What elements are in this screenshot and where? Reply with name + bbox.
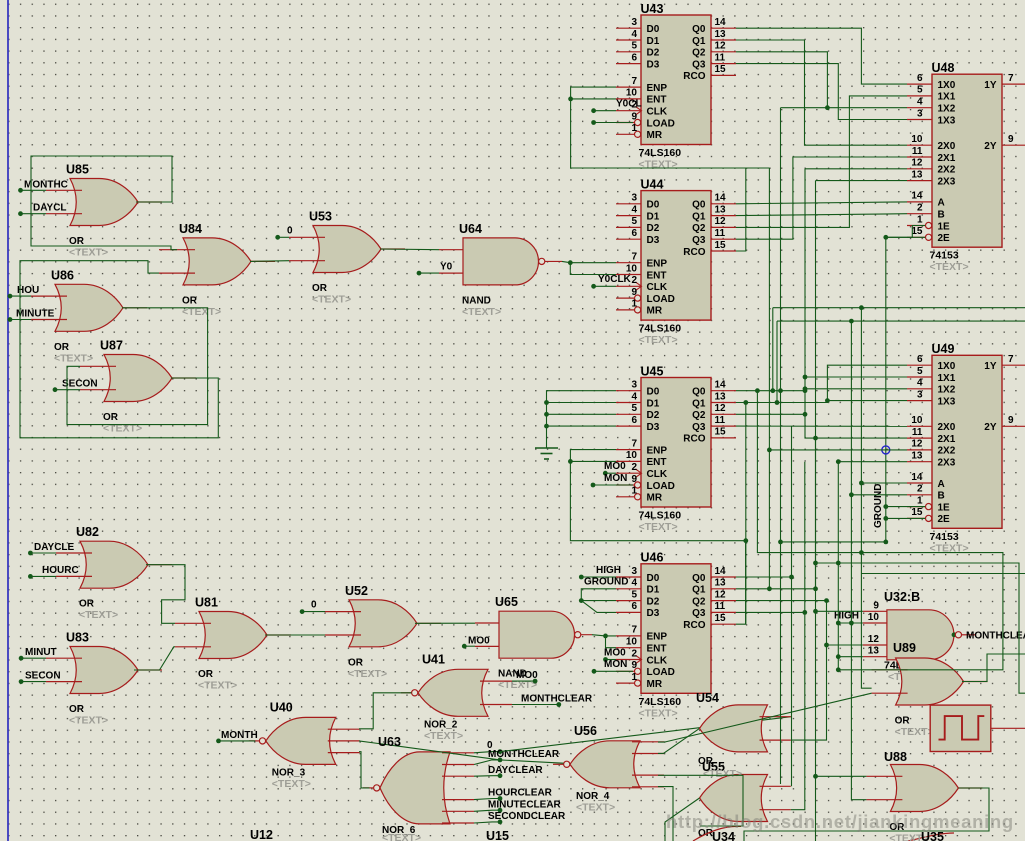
- svg-text:7: 7: [631, 252, 637, 263]
- net label SECON (lower): [19, 670, 61, 684]
- net label 0 to U52 input A: [300, 600, 325, 614]
- svg-text:<TEXT>: <TEXT>: [198, 680, 237, 692]
- svg-text:U56: U56: [574, 724, 597, 738]
- wire U54 output diagonal to U56 input 2: [658, 728, 700, 753]
- svg-text:13: 13: [715, 391, 727, 402]
- svg-text:2E: 2E: [938, 233, 951, 244]
- svg-text:Q3: Q3: [692, 59, 706, 70]
- svg-text:2: 2: [917, 484, 923, 495]
- IC U48 74153 multiplexer: [907, 61, 1025, 273]
- svg-text:MO0: MO0: [604, 461, 626, 472]
- svg-text:10: 10: [868, 612, 880, 623]
- svg-text:U85: U85: [66, 163, 89, 177]
- svg-text:<TEXT>: <TEXT>: [639, 159, 678, 171]
- net label Y0CLK at U44 CLK: [591, 274, 631, 289]
- svg-text:11: 11: [715, 228, 726, 239]
- wire U87 output loop to U84 input B: [20, 261, 218, 438]
- wire U45 D0-D3 tied to ground: [544, 391, 616, 448]
- svg-text:1: 1: [631, 486, 637, 497]
- svg-text:14: 14: [911, 472, 923, 483]
- svg-text:5: 5: [631, 403, 637, 414]
- net label MONTHC: [18, 180, 68, 193]
- svg-text:MINUTE: MINUTE: [16, 309, 55, 320]
- svg-text:4: 4: [917, 378, 923, 389]
- svg-text:OR: OR: [182, 295, 198, 306]
- svg-text:15: 15: [715, 240, 727, 251]
- svg-text:ENP: ENP: [647, 83, 668, 94]
- wire U44 Q1 straight to U48 B: [736, 214, 907, 216]
- svg-text:Q2: Q2: [692, 223, 706, 234]
- wire U81 output to U52 input B: [265, 634, 325, 636]
- svg-text:Q0: Q0: [692, 387, 706, 398]
- svg-text:2X1: 2X1: [938, 434, 956, 445]
- svg-text:ENP: ENP: [647, 259, 668, 270]
- svg-text:OR: OR: [103, 412, 119, 423]
- svg-text:U86: U86: [51, 268, 74, 282]
- wire U43 ENP/ENT tie to U44 RCO (carry chain): [568, 87, 746, 251]
- svg-text:12: 12: [715, 403, 727, 414]
- svg-text:6: 6: [631, 601, 637, 612]
- wire U43 Q0 to U48 1X0 via track x=861: [736, 28, 907, 84]
- svg-text:10: 10: [911, 415, 923, 426]
- svg-text:3: 3: [631, 17, 637, 28]
- svg-text:Y0: Y0: [440, 262, 453, 273]
- IC U49 74153 multiplexer: [907, 342, 1025, 554]
- svg-text:U84: U84: [179, 222, 202, 236]
- svg-text:U89: U89: [893, 641, 916, 655]
- svg-text:1X3: 1X3: [938, 115, 956, 126]
- wire U84 output to U53 input B: [250, 260, 289, 263]
- svg-text:14: 14: [715, 566, 727, 577]
- svg-text:Q2: Q2: [692, 410, 706, 421]
- svg-text:3: 3: [631, 380, 637, 391]
- svg-text:U52: U52: [345, 584, 368, 598]
- svg-text:<TEXT>: <TEXT>: [69, 715, 108, 727]
- svg-text:2X2: 2X2: [938, 446, 956, 457]
- svg-text:1X0: 1X0: [938, 361, 956, 372]
- svg-text:D1: D1: [647, 36, 660, 47]
- svg-text:Y0CLK: Y0CLK: [598, 274, 632, 285]
- wire U40 input 3 to NOR_6 output: [359, 752, 370, 788]
- OR gate U83: [46, 631, 162, 727]
- svg-text:MINUTECLEAR: MINUTECLEAR: [488, 799, 562, 810]
- svg-text:D3: D3: [647, 59, 660, 70]
- svg-text:Q1: Q1: [692, 36, 706, 47]
- svg-text:OR: OR: [348, 657, 364, 668]
- svg-text:<TEXT>: <TEXT>: [382, 832, 421, 841]
- NOR_2 gate U41 (mirrored, output bubble at left): [401, 652, 512, 742]
- svg-text:NOR_3: NOR_3: [272, 767, 306, 778]
- svg-text:14: 14: [715, 380, 727, 391]
- svg-text:ENT: ENT: [647, 270, 667, 281]
- svg-text:2E: 2E: [938, 514, 951, 525]
- wire U56 input 4 run down: [658, 787, 673, 841]
- wire U89 output: [962, 654, 1025, 682]
- svg-text:MONTH: MONTH: [221, 730, 258, 741]
- svg-text:D3: D3: [647, 422, 660, 433]
- svg-text:1E: 1E: [938, 502, 951, 513]
- svg-text:NOR_4: NOR_4: [576, 791, 610, 802]
- wire U46 Q0 to U49 2X0 track x=791 and down to U55 input 1: [736, 426, 794, 786]
- svg-text:0: 0: [287, 226, 293, 237]
- svg-text:9: 9: [1008, 134, 1014, 145]
- svg-text:1: 1: [631, 299, 637, 310]
- svg-text:D2: D2: [647, 596, 660, 607]
- NAND gate U65: [475, 595, 581, 691]
- svg-text:MR: MR: [647, 130, 663, 141]
- svg-text:4: 4: [917, 97, 923, 108]
- svg-text:74LS160: 74LS160: [639, 696, 682, 708]
- svg-text:http://blog.csdn.net/jiankingm: http://blog.csdn.net/jiankingmeaning: [666, 811, 1014, 832]
- svg-text:MON: MON: [604, 659, 627, 670]
- svg-text:U45: U45: [641, 364, 664, 378]
- wire U64 output to U44 ENP and ENT: [545, 260, 616, 274]
- svg-text:D2: D2: [647, 223, 660, 234]
- svg-text:3: 3: [631, 193, 637, 204]
- chain horizontal from U43 extended with branch tracks x=769 x=780: [746, 168, 770, 589]
- origin marker (blue circle): [882, 446, 890, 454]
- net label MON at U45 LOAD: [591, 473, 633, 488]
- svg-text:U15: U15: [486, 829, 509, 841]
- wire U45 Q3 straight through to U49 2X0: [736, 425, 907, 427]
- labels U54 U55 U34: [696, 691, 742, 841]
- svg-text:0: 0: [311, 600, 317, 611]
- svg-text:U32:B: U32:B: [884, 590, 920, 604]
- OR gate U55 (mirrored, output at left tip): [700, 775, 791, 822]
- svg-text:DAYCL: DAYCL: [33, 203, 67, 214]
- wire U43 Q2 to U48 1X2 via track x=827: [736, 52, 907, 110]
- svg-text:3: 3: [631, 566, 637, 577]
- svg-text:2X3: 2X3: [938, 176, 956, 187]
- svg-text:D0: D0: [647, 573, 660, 584]
- svg-text:2: 2: [631, 648, 637, 659]
- svg-text:U46: U46: [641, 551, 664, 565]
- svg-text:HIGH: HIGH: [596, 565, 621, 576]
- IC U44 74LS160 counter: [616, 177, 736, 346]
- svg-text:MO0: MO0: [604, 647, 626, 658]
- track x=757 from U45 Q0 down to right-edge run at y=552: [757, 391, 1003, 670]
- net label MO0 to U65 input B: [462, 636, 490, 649]
- svg-text:D0: D0: [647, 200, 660, 211]
- svg-text:2X0: 2X0: [938, 141, 956, 152]
- svg-text:SECONDCLEAR: SECONDCLEAR: [488, 811, 566, 822]
- svg-text:1X3: 1X3: [938, 396, 956, 407]
- svg-text:1X0: 1X0: [938, 80, 956, 91]
- svg-text:<TEXT>: <TEXT>: [639, 707, 678, 719]
- net label MON at U46 LOAD: [592, 659, 633, 674]
- svg-text:B: B: [938, 210, 945, 221]
- svg-text:Y0CL: Y0CL: [616, 99, 642, 110]
- svg-text:D0: D0: [647, 24, 660, 35]
- svg-text:9: 9: [631, 287, 637, 298]
- svg-text:D2: D2: [647, 410, 660, 421]
- svg-text:NOR_2: NOR_2: [424, 719, 458, 730]
- svg-text:U53: U53: [309, 210, 332, 224]
- svg-text:Q1: Q1: [692, 585, 706, 596]
- svg-text:7: 7: [631, 438, 637, 449]
- svg-text:MR: MR: [647, 306, 663, 317]
- net label MINUT: [19, 647, 57, 661]
- svg-text:2: 2: [631, 275, 637, 286]
- svg-text:13: 13: [715, 578, 727, 589]
- svg-text:LOAD: LOAD: [647, 294, 675, 305]
- net label MO0 at U45 CLK: [603, 461, 626, 476]
- svg-text:1: 1: [631, 123, 637, 134]
- junction dot and bubble at U32:B output with MONTHCLEAR label: [952, 631, 1025, 642]
- svg-text:<TEXT>: <TEXT>: [895, 726, 934, 738]
- OR gate U54 (mirrored, output at left tip): [700, 705, 791, 752]
- IC U43 74LS160 counter: [616, 2, 736, 171]
- svg-text:4: 4: [631, 204, 637, 215]
- svg-text:15: 15: [911, 226, 923, 237]
- svg-text:1: 1: [631, 672, 637, 683]
- wire U49 A select from track x=861: [773, 305, 1025, 688]
- svg-text:CLK: CLK: [647, 282, 668, 293]
- svg-text:74LS160: 74LS160: [639, 147, 682, 159]
- svg-text:HOURCLEAR: HOURCLEAR: [488, 788, 553, 799]
- digital clock source symbol: [930, 705, 1025, 751]
- net label MONTHCLEAR at U41 input B: [512, 693, 593, 707]
- net label MO0 at U41 input A: [512, 670, 538, 684]
- wire U65 output to U46 ENP and ENT: [0, 0, 1, 1]
- svg-text:U41: U41: [422, 652, 445, 666]
- svg-text:13: 13: [868, 646, 880, 657]
- svg-text:11: 11: [715, 415, 726, 426]
- svg-text:ENT: ENT: [647, 457, 667, 468]
- svg-text:MR: MR: [647, 679, 663, 690]
- svg-text:<TEXT>: <TEXT>: [312, 294, 351, 306]
- svg-text:14: 14: [715, 17, 727, 28]
- net label DAYCLE: [28, 542, 75, 555]
- svg-text:Q1: Q1: [692, 398, 706, 409]
- svg-text:13: 13: [911, 169, 923, 180]
- svg-text:Q1: Q1: [692, 211, 706, 222]
- svg-text:DAYCLE: DAYCLE: [34, 542, 75, 553]
- svg-text:15: 15: [715, 64, 727, 75]
- wire U45 ENP/ENT tie to U46 RCO (carry chain): [568, 450, 746, 625]
- svg-text:ENT: ENT: [647, 95, 667, 106]
- svg-text:A: A: [938, 198, 945, 209]
- svg-text:13: 13: [911, 451, 923, 462]
- svg-text:6: 6: [917, 73, 923, 84]
- svg-text:6: 6: [631, 52, 637, 63]
- OR gate U82: [56, 525, 172, 621]
- partial gate U35 at bottom edge: [908, 833, 954, 841]
- wire U56 input 1 diagonal to U89 input 2: [658, 693, 872, 742]
- svg-text:Q0: Q0: [692, 573, 706, 584]
- net label MO0 at U46 CLK: [603, 647, 626, 662]
- svg-text:RCO: RCO: [683, 434, 705, 445]
- svg-text:13: 13: [715, 29, 727, 40]
- svg-text:<TEXT>: <TEXT>: [462, 306, 501, 318]
- svg-text:Q3: Q3: [692, 608, 706, 619]
- wire U46 Q2 to track x=826 down to U54 input 2: [736, 598, 829, 740]
- svg-text:7: 7: [1008, 354, 1014, 365]
- svg-text:1X1: 1X1: [938, 373, 956, 384]
- wire U43 Q3 to U48 1X3 via track x=838: [736, 64, 907, 120]
- svg-text:1Y: 1Y: [984, 361, 997, 372]
- OR gate U89: [872, 658, 988, 738]
- svg-text:MO0: MO0: [468, 636, 490, 647]
- svg-text:5: 5: [917, 366, 923, 377]
- svg-text:LOAD: LOAD: [647, 667, 675, 678]
- OR gate U84: [159, 222, 275, 318]
- svg-text:3: 3: [917, 389, 923, 400]
- net label Y0CL at U43 CLK: [591, 99, 641, 114]
- wire U45 Q2 to track x=805: [736, 412, 807, 417]
- wire U44 Q0 straight to U48 A: [736, 202, 907, 204]
- wire U46 Q1 to track x=815 (feeds U49 2X1): [736, 436, 818, 591]
- svg-text:RCO: RCO: [683, 71, 705, 82]
- svg-text:12: 12: [715, 216, 727, 227]
- OR gate U85: [46, 163, 162, 259]
- IC U45 74LS160 counter: [616, 364, 736, 533]
- svg-text:OR: OR: [79, 599, 95, 610]
- svg-text:10: 10: [626, 450, 638, 461]
- svg-text:U12: U12: [250, 828, 273, 841]
- svg-text:LOAD: LOAD: [647, 118, 675, 129]
- OR gate U53: [289, 210, 405, 306]
- svg-text:CLK: CLK: [647, 469, 668, 480]
- svg-text:15: 15: [715, 613, 727, 624]
- OR gate U87: [80, 339, 196, 435]
- svg-text:OR: OR: [69, 236, 85, 247]
- svg-text:RCO: RCO: [683, 247, 705, 258]
- OR gate U52: [325, 584, 441, 680]
- svg-text:2X2: 2X2: [938, 165, 956, 176]
- svg-text:U65: U65: [495, 595, 518, 609]
- svg-text:U87: U87: [100, 339, 123, 353]
- track x=746 chain from U45 Q1 down to U46 RCO: [743, 403, 748, 625]
- svg-text:U83: U83: [66, 631, 89, 645]
- wire U49 2X2 from track x=769: [767, 448, 907, 453]
- net label Y0 to U64 input B: [417, 262, 453, 276]
- OR gate U88: [866, 765, 982, 841]
- svg-text:Q2: Q2: [692, 48, 706, 59]
- svg-text:CLK: CLK: [647, 107, 668, 118]
- svg-text:1X2: 1X2: [938, 104, 956, 115]
- svg-text:11: 11: [912, 146, 923, 157]
- svg-text:7: 7: [631, 625, 637, 636]
- svg-text:<TEXT>: <TEXT>: [576, 801, 615, 813]
- wire at U43 LOAD: [591, 120, 633, 125]
- wire U48 1E 2E enable tie into ground bus: [883, 226, 925, 542]
- svg-text:12: 12: [715, 41, 727, 52]
- svg-text:2: 2: [917, 203, 923, 214]
- svg-text:9: 9: [631, 474, 637, 485]
- svg-text:LOAD: LOAD: [647, 481, 675, 492]
- track x=805 feeding U48 2X2 and U49 1X1 1X2 2X1: [803, 169, 907, 438]
- svg-text:B: B: [938, 491, 945, 502]
- net label GROUND at U46 D1, tied to D2 D3: [579, 577, 629, 613]
- wire U55 output diagonal to bottom: [665, 798, 700, 841]
- svg-text:DAYCLEAR: DAYCLEAR: [488, 765, 543, 776]
- svg-text:D1: D1: [647, 585, 660, 596]
- svg-text:ENP: ENP: [647, 445, 668, 456]
- svg-text:HOURC: HOURC: [42, 565, 79, 576]
- net label HOU: [8, 285, 40, 299]
- svg-text:NAND: NAND: [462, 295, 491, 306]
- svg-text:6: 6: [631, 415, 637, 426]
- svg-text:U88: U88: [884, 750, 907, 764]
- net label HIGH at U46 D0: [579, 565, 621, 580]
- svg-text:6: 6: [917, 354, 923, 365]
- svg-text:<TEXT>: <TEXT>: [424, 730, 463, 742]
- svg-text:D1: D1: [647, 211, 660, 222]
- svg-text:1E: 1E: [938, 221, 951, 232]
- svg-text:11: 11: [715, 601, 726, 612]
- wire U49 2X3 and track x=838 down to U32:B input 4 and U89 input 1 row: [836, 459, 863, 672]
- svg-text:14: 14: [911, 191, 923, 202]
- svg-text:<TEXT>: <TEXT>: [348, 668, 387, 680]
- wire U85 output feedback loop to U84 input A: [31, 156, 177, 250]
- partial gate U34 at bottom edge: [693, 826, 741, 841]
- sheet border (blue): [7, 0, 9, 841]
- svg-text:U40: U40: [270, 700, 293, 714]
- wire U65 output to U46 ENP/ENT: [581, 634, 616, 648]
- svg-text:GROUND: GROUND: [584, 577, 628, 588]
- svg-text:74LS160: 74LS160: [639, 510, 682, 522]
- svg-text:1X1: 1X1: [938, 92, 956, 103]
- svg-text:A: A: [938, 479, 945, 490]
- svg-text:13: 13: [715, 204, 727, 215]
- OR gate U81: [175, 596, 291, 692]
- wire track x=815 to U88 input 1: [813, 774, 866, 779]
- svg-text:9: 9: [1008, 415, 1014, 426]
- svg-text:Q0: Q0: [692, 200, 706, 211]
- wire U56 output to MONTHCLEAR node: [500, 760, 563, 763]
- svg-text:11: 11: [715, 52, 726, 63]
- svg-text:U63: U63: [378, 735, 401, 749]
- IC U46 74LS160 counter: [616, 551, 736, 720]
- svg-text:12: 12: [911, 158, 923, 169]
- svg-text:<TEXT>: <TEXT>: [930, 261, 969, 273]
- svg-text:1: 1: [917, 214, 923, 225]
- svg-text:MR: MR: [647, 493, 663, 504]
- svg-text:OR: OR: [895, 716, 911, 727]
- select bus branch tracks x=773 x=777: [770, 308, 779, 405]
- svg-text:ENT: ENT: [647, 644, 667, 655]
- ground symbol: [535, 448, 558, 459]
- svg-text:10: 10: [626, 88, 638, 99]
- svg-text:CLK: CLK: [647, 655, 668, 666]
- svg-text:1: 1: [917, 495, 923, 506]
- svg-text:2: 2: [631, 462, 637, 473]
- wire U83 output to U81 input B (diagonal): [134, 647, 175, 670]
- net label MONTH at U40 output: [216, 730, 258, 744]
- svg-text:<TEXT>: <TEXT>: [639, 521, 678, 533]
- svg-text:2X3: 2X3: [938, 458, 956, 469]
- svg-text:12: 12: [868, 634, 880, 645]
- wire U88 output run to bottom edge: [744, 788, 989, 841]
- svg-text:14: 14: [715, 193, 727, 204]
- svg-text:9: 9: [873, 600, 879, 611]
- svg-text:5: 5: [631, 41, 637, 52]
- svg-text:MONTHCLEAR: MONTHCLEAR: [521, 693, 593, 704]
- wire U44 Q3 to U48 2X1 via track x=793: [736, 157, 907, 239]
- wire U41 output to U40 input 1: [359, 693, 411, 729]
- svg-text:MO0: MO0: [516, 670, 538, 681]
- NOR_3 gate U40 (mirrored, output bubble at left): [249, 700, 360, 790]
- wire track x=815 to U32:B input 1: [813, 609, 863, 614]
- wire U82 output to U81 input A (zigzag): [146, 565, 185, 624]
- svg-text:U49: U49: [932, 342, 955, 356]
- svg-text:<TEXT>: <TEXT>: [639, 334, 678, 346]
- NOR_6 input wires with clear-net labels: [474, 740, 566, 825]
- NOR_4 gate U56 (mirrored, output bubble at left): [553, 724, 664, 814]
- svg-text:D3: D3: [647, 608, 660, 619]
- svg-text:74153: 74153: [930, 531, 959, 543]
